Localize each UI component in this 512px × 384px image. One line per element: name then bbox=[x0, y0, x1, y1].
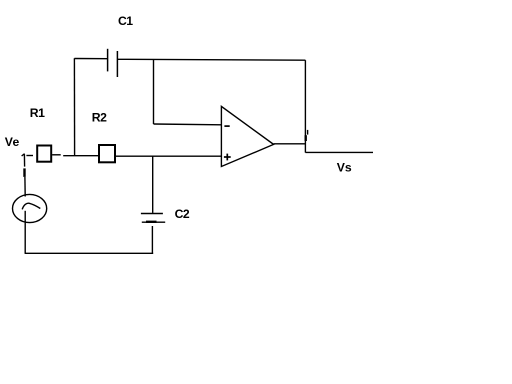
wire source bottom lead bbox=[24, 211, 26, 254]
wire output riser from top wire down to output node bbox=[304, 60, 306, 152]
wire input dash from Ve node toward R1 bbox=[26, 155, 33, 157]
wire bottom return horizontal bbox=[25, 252, 154, 254]
resistor R2 bbox=[99, 145, 115, 162]
svg-text:C1: C1 bbox=[118, 14, 133, 28]
svg-text:Ve: Ve bbox=[5, 135, 20, 149]
wire R2 right lead to non-inverting input bbox=[116, 155, 221, 157]
capacitor C1 bbox=[108, 49, 118, 77]
wire left riser from node A up to C1 bbox=[73, 58, 75, 156]
wire feedback riser from top wire down to inverting input bbox=[153, 60, 155, 124]
wire small tick beside output riser bbox=[307, 130, 309, 135]
wire source top lead below node Ve bbox=[23, 154, 25, 166]
label Ve bbox=[5, 135, 20, 149]
label R1 bbox=[30, 106, 45, 120]
wire input arrow tick at node Ve bbox=[22, 154, 25, 156]
svg-text:R1: R1 bbox=[30, 106, 45, 120]
wire C2 bottom lead bbox=[151, 226, 153, 253]
wire top-left horizontal from node A riser to C1 left plate bbox=[74, 58, 107, 60]
svg-text:R2: R2 bbox=[92, 110, 107, 124]
wire C2 branch riser from non-inverting rail bbox=[152, 156, 154, 213]
wire thick retrace on source top lead bbox=[23, 168, 25, 177]
wire thick retrace on output riser bbox=[305, 135, 307, 141]
wire node A horizontal segment to R2 bbox=[63, 155, 98, 157]
wire output horizontal to Vs bbox=[305, 151, 373, 153]
op-amp U1 bbox=[221, 106, 273, 166]
wire top horizontal from C1 right plate to output riser bbox=[117, 58, 305, 61]
label R2 bbox=[92, 110, 107, 124]
label C1 bbox=[118, 14, 133, 28]
capacitor C2 bbox=[141, 214, 165, 223]
source V1 AC generator bbox=[13, 194, 47, 222]
svg-text:Vs: Vs bbox=[337, 161, 352, 175]
label C2 bbox=[175, 207, 190, 221]
resistor R1 bbox=[37, 146, 51, 162]
svg-text:C2: C2 bbox=[175, 207, 190, 221]
wire source top lead into circle bbox=[24, 177, 26, 197]
wire R1 right lead bbox=[52, 154, 61, 156]
label Vs bbox=[337, 161, 352, 175]
wire inverting input horizontal to op-amp bbox=[154, 123, 222, 126]
wire op-amp output to riser bbox=[274, 143, 306, 145]
